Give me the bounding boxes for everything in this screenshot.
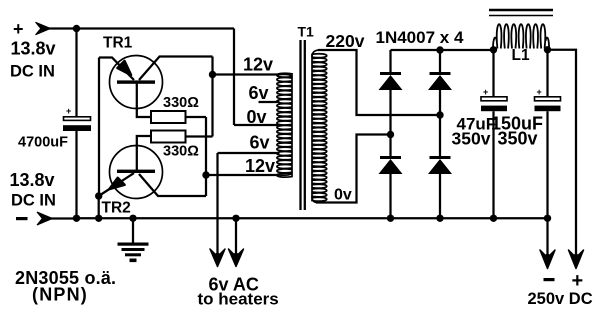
wire right column top stub — [439, 50, 441, 72]
resistor R1 330ohm body — [151, 111, 186, 123]
svg-text:+: + — [13, 19, 24, 39]
wire left rail upper (+ to capacitor) — [75, 29, 77, 117]
transistor TR2 body circle — [110, 146, 163, 199]
svg-text:13.8v: 13.8v — [11, 39, 56, 59]
diode D4 (bottom right) cathode bar — [430, 156, 451, 159]
svg-text:to heaters: to heaters — [198, 290, 279, 309]
svg-text:0v: 0v — [247, 107, 267, 127]
wire 6v upper tap stub — [259, 101, 280, 103]
wire 12v bottom tap horizontal — [206, 174, 279, 176]
inductor L1 core lines — [489, 9, 553, 12]
node heater output arrow left — [210, 249, 225, 267]
transformer T1 core — [301, 40, 305, 210]
svg-text:T1: T1 — [298, 24, 315, 40]
transistor TR1 collector lead — [139, 57, 213, 81]
svg-text:0v: 0v — [334, 187, 352, 204]
transistor TR1 base bar — [117, 80, 155, 83]
node + output arrow — [569, 250, 584, 269]
wire rail down to heater arrow right — [235, 218, 237, 263]
node rail dot at left rail — [73, 215, 80, 222]
wire left rail lower (capacitor to bottom rail) — [75, 131, 77, 218]
wire - output drop — [546, 218, 548, 264]
svg-text:330Ω: 330Ω — [163, 144, 199, 160]
diode D1 (top left) cathode bar — [380, 72, 401, 75]
wire center-tap drop vertical — [233, 29, 235, 126]
wire top positive rail to center-tap drop — [77, 27, 235, 29]
capacitor C2 47uF top lead — [492, 50, 494, 97]
node dot bridge top right column — [436, 46, 443, 53]
node dot bridge left mid — [387, 131, 394, 138]
resistor R2 right lead — [186, 135, 213, 137]
capacitor C2 47uF top plate — [481, 97, 507, 101]
wire right column mid — [439, 90, 441, 156]
wire L1 right to + output corner — [548, 50, 577, 264]
label - output — [544, 278, 555, 281]
svg-text:4700uF: 4700uF — [18, 135, 68, 151]
svg-text:DC IN: DC IN — [10, 63, 55, 81]
transformer T1 primary winding — [277, 73, 292, 177]
capacitor C3 bottom lead — [546, 111, 548, 218]
transistor TR2 emitter lead with arrow — [99, 173, 134, 196]
capacitor C2 47uF bottom plate — [481, 106, 507, 112]
svg-text:6v: 6v — [249, 83, 269, 103]
transformer T1 primary bottom hook — [279, 172, 292, 175]
svg-text:350v: 350v — [498, 129, 538, 149]
capacitor C3 150uF bottom plate — [535, 106, 561, 112]
node junction dot top-left rail — [73, 25, 80, 32]
wire 6v lower tap horizontal — [218, 152, 280, 154]
wire emitters common vertical — [98, 58, 100, 197]
ground symbol stub — [132, 218, 134, 243]
transformer T1 secondary bottom hook — [312, 196, 318, 203]
wire - terminal to bottom rail — [50, 217, 77, 219]
diode D4 triangle — [428, 159, 452, 174]
node rail dot left column — [387, 215, 394, 222]
node dot L1 left — [490, 46, 497, 53]
node junction dot 12v top tap — [209, 71, 216, 78]
wire 0v tap horizontal — [234, 124, 280, 126]
svg-text:DC IN: DC IN — [11, 192, 56, 210]
svg-text:TR2: TR2 — [102, 200, 131, 217]
capacitor C3 150uF top lead — [546, 50, 548, 97]
svg-text:13.8v: 13.8v — [10, 170, 55, 190]
node rail dot C2 — [490, 215, 497, 222]
diode D2 triangle — [428, 75, 452, 90]
svg-text:350v: 350v — [452, 129, 491, 149]
node junction dot emitters — [95, 192, 102, 199]
svg-text:12v: 12v — [245, 156, 275, 176]
label - (bottom input) — [16, 217, 28, 220]
wire R1 to TR2 collector node vertical — [205, 117, 207, 196]
node - input terminal (13.8v DC IN bottom) — [37, 212, 53, 225]
wire bridge top rail — [391, 49, 494, 51]
node rail dot at ground — [129, 215, 136, 222]
node - output arrow — [540, 250, 555, 269]
wire R2 to TR1 collector vertical — [211, 57, 213, 137]
svg-text:12v: 12v — [243, 55, 273, 75]
svg-text:L1: L1 — [512, 47, 530, 64]
resistor R2 330ohm body — [151, 131, 186, 143]
wire left column bottom — [389, 174, 391, 218]
wire left column top stub — [389, 50, 391, 72]
wire 6v tap down to heater arrow — [216, 153, 218, 263]
diode D3 (bottom left) cathode bar — [380, 156, 401, 159]
transformer T1 secondary top hook — [312, 50, 320, 57]
transformer T1 primary top hook — [279, 74, 292, 78]
svg-text:1N4007 x 4: 1N4007 x 4 — [376, 28, 464, 47]
node junction dot 12v bottom tap — [202, 171, 209, 178]
svg-text:+: + — [572, 270, 584, 292]
wire emitter junction to bottom rail — [98, 196, 100, 218]
node dot L1 right — [544, 46, 551, 53]
node rail dot at emitter line — [95, 215, 102, 222]
svg-text:6v: 6v — [250, 133, 270, 153]
svg-text:(NPN): (NPN) — [32, 285, 88, 305]
wire + terminal to top rail — [48, 27, 77, 29]
capacitor C2 bottom lead — [492, 111, 494, 218]
diode D3 triangle — [379, 159, 403, 174]
transistor TR2 collector lead — [139, 174, 206, 196]
transformer T1 secondary winding — [312, 54, 327, 202]
svg-text:+: + — [483, 87, 488, 97]
capacitor C1 4700uF bottom plate — [63, 125, 91, 131]
svg-text:330Ω: 330Ω — [163, 95, 199, 111]
node rail dot at heater branch — [232, 215, 239, 222]
inductor L1 winding — [493, 24, 549, 49]
resistor R1 right lead — [186, 116, 207, 118]
transistor TR2 base bar — [117, 170, 155, 173]
svg-text:+: + — [537, 87, 542, 97]
node dot bridge right mid — [436, 111, 443, 118]
node rail dot right column — [436, 215, 443, 222]
wire secondary 220v to bridge — [318, 50, 440, 115]
svg-text:220v: 220v — [326, 31, 365, 51]
transistor TR1 emitter lead with arrow — [99, 58, 134, 81]
wire secondary 0v to bridge — [316, 135, 391, 203]
capacitor C3 150uF top plate — [535, 97, 561, 101]
transistor TR1 base lead down — [137, 83, 151, 117]
node + input terminal (13.8v DC IN top) — [36, 22, 51, 35]
svg-text:TR1: TR1 — [103, 35, 133, 52]
wire left column mid — [389, 90, 391, 156]
svg-text:+: + — [66, 106, 71, 116]
diode D1 triangle — [379, 75, 403, 90]
wire bottom rail — [77, 217, 548, 219]
ground symbol bars — [118, 243, 149, 263]
svg-text:250v DC: 250v DC — [528, 290, 593, 308]
wire right column bottom — [439, 174, 441, 218]
transistor TR2 base lead up — [137, 136, 151, 171]
diode D2 (top right) cathode bar — [430, 72, 451, 75]
wire 12v top tap horizontal — [213, 73, 280, 75]
node rail dot C3 / - output — [544, 215, 551, 222]
transistor TR1 body circle — [110, 56, 163, 109]
capacitor C1 4700uF top plate — [64, 117, 91, 121]
node heater output arrow right — [229, 249, 244, 267]
